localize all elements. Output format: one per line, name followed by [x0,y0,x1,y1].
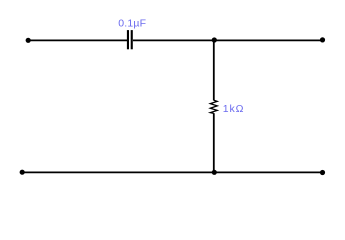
wire: bottom rail [22,171,322,173]
svg-text:0.1µF: 0.1µF [118,18,146,30]
node: top-right terminal [320,37,325,42]
wire: vertical segment from resistor to bottom junction [213,113,215,172]
value label 1kOhm [223,103,245,115]
node: bottom-left terminal [20,170,25,175]
wire: top rail left segment (terminal to capacitor) [28,39,127,41]
capacitor C1 0.1uF [127,30,133,49]
wire: top rail right segment (capacitor to right terminal) [133,39,323,41]
node: bottom junction [212,170,217,175]
svg-text:1kΩ: 1kΩ [223,103,245,115]
node: bottom-right terminal [320,170,325,175]
value label 0.1uF [118,18,146,30]
node: top junction [212,37,217,42]
wire: vertical segment from top junction to resistor [213,40,215,100]
resistor R1 1kOhm [210,100,217,113]
node: top-left terminal [26,38,31,43]
